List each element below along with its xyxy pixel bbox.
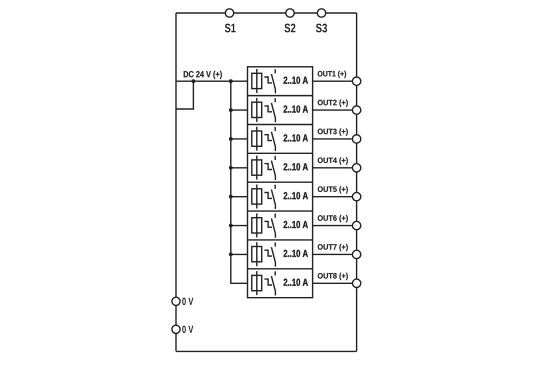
divider between channel 6 and channel 7 — [248, 239, 313, 241]
terminal OUT1 (+) — [352, 77, 360, 85]
wire: right vertical output rail — [356, 13, 358, 351]
value label 2..10 A (channel 8) — [284, 279, 308, 286]
breaker switch Q5 (channel 5) — [264, 185, 275, 209]
label OUT7 (+) — [318, 244, 348, 251]
fuse F4 (channel 4) — [252, 156, 262, 180]
junction: bus / channel 5 stub — [229, 195, 233, 199]
breaker switch Q8 (channel 8) — [264, 271, 275, 295]
module outline: 8-channel electronic breaker block — [248, 67, 313, 298]
wire: channel 1 output to terminal OUT1 — [313, 80, 357, 82]
wire: bus stub to channel 5 — [231, 196, 248, 198]
wire: bus stub to channel 6 — [231, 225, 248, 227]
divider between channel 7 and channel 8 — [248, 268, 313, 270]
value label 2..10 A (channel 5) — [284, 192, 308, 199]
value label 2..10 A (channel 4) — [284, 163, 308, 170]
divider between channel 4 and channel 5 — [248, 181, 313, 183]
value label 2..10 A (channel 7) — [284, 250, 308, 257]
wire: channel 4 output to terminal OUT4 — [313, 167, 357, 169]
wire: bus stub to channel 3 — [231, 138, 248, 140]
wire: channel 6 output to terminal OUT6 — [313, 225, 357, 227]
wire: bus stub to channel 4 — [231, 167, 248, 169]
fuse F1 (channel 1) — [252, 69, 262, 93]
junction: node A on DC 24 V feed — [192, 79, 196, 83]
value label 2..10 A (channel 2) — [284, 105, 308, 112]
terminal OUT7 (+) — [352, 250, 360, 258]
value label 2..10 A (channel 3) — [284, 134, 308, 141]
fuse F5 (channel 5) — [252, 185, 262, 209]
fuse F2 (channel 2) — [252, 98, 262, 122]
label OUT6 (+) — [318, 215, 348, 222]
junction: bus / channel 2 stub — [229, 108, 233, 112]
junction: bus / channel 4 stub — [229, 166, 233, 170]
breaker switch Q2 (channel 2) — [264, 98, 275, 122]
value label 2..10 A (channel 6) — [284, 221, 308, 228]
label OUT8 (+) — [318, 273, 348, 280]
label OUT3 (+) — [318, 128, 348, 135]
terminal OUT8 (+) — [352, 279, 360, 287]
value label 2..10 A (channel 1) — [284, 77, 308, 84]
label 0 V (upper) — [182, 298, 193, 305]
fuse F6 (channel 6) — [252, 213, 262, 237]
wire: channel 8 output to terminal OUT8 — [313, 282, 357, 284]
wire: top signal rail (S1-S3) — [176, 12, 357, 14]
breaker switch Q6 (channel 6) — [264, 214, 275, 238]
fuse F3 (channel 3) — [252, 127, 262, 151]
wire: branch from node A down and left to left line — [176, 81, 193, 109]
wire: bus stub to channel 2 — [231, 109, 248, 111]
label OUT5 (+) — [318, 186, 348, 193]
wire: +24 V distribution bus with corner into channel 8 — [231, 81, 248, 283]
wire: bottom return — [176, 350, 357, 352]
terminal OUT5 (+) — [352, 192, 360, 200]
divider between channel 2 and channel 3 — [248, 123, 313, 125]
junction: bus / channel 6 stub — [229, 224, 233, 228]
label S1 — [225, 24, 236, 33]
terminal S3 — [317, 9, 325, 17]
fuse F8 (channel 8) — [252, 271, 262, 295]
breaker switch Q1 (channel 1) — [264, 69, 275, 93]
terminal OUT4 (+) — [352, 164, 360, 172]
junction: bus / DC 24 V feed (channel 1) — [229, 79, 233, 83]
terminal OUT6 (+) — [352, 221, 360, 229]
junction: bus / channel 7 stub — [229, 253, 233, 257]
terminal S2 — [286, 9, 294, 17]
label 0 V (lower) — [182, 326, 193, 333]
breaker switch Q3 (channel 3) — [264, 127, 275, 151]
label OUT2 (+) — [318, 100, 348, 107]
label S2 — [284, 24, 295, 33]
wire: DC 24 V (+) feed — [176, 80, 248, 82]
divider between channel 5 and channel 6 — [248, 210, 313, 212]
breaker switch Q4 (channel 4) — [264, 156, 275, 180]
terminal S1 — [225, 9, 233, 17]
wire: bus stub to channel 7 — [231, 253, 248, 255]
terminal 0 V (upper) — [172, 297, 180, 305]
divider between channel 1 and channel 2 — [248, 95, 313, 97]
wire: left vertical supply/return line — [175, 13, 177, 351]
label OUT4 (+) — [318, 157, 348, 164]
fuse F7 (channel 7) — [252, 242, 262, 266]
terminal OUT2 (+) — [352, 106, 360, 114]
terminal OUT3 (+) — [352, 135, 360, 143]
wire: channel 7 output to terminal OUT7 — [313, 253, 357, 255]
breaker switch Q7 (channel 7) — [264, 242, 275, 266]
wire: channel 3 output to terminal OUT3 — [313, 138, 357, 140]
label OUT1 (+) — [318, 71, 346, 78]
wire: channel 5 output to terminal OUT5 — [313, 196, 357, 198]
junction: bus / channel 3 stub — [229, 137, 233, 141]
wire: channel 2 output to terminal OUT2 — [313, 109, 357, 111]
label S3 — [316, 24, 327, 33]
label DC 24 V (+) supply net — [184, 71, 222, 79]
terminal 0 V (lower) — [172, 325, 180, 333]
divider between channel 3 and channel 4 — [248, 152, 313, 154]
